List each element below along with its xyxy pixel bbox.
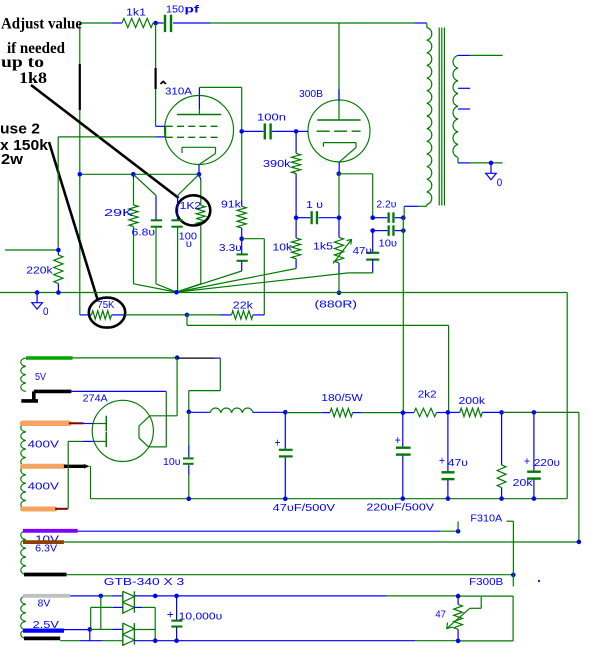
node 100n right / 390k xyxy=(294,129,299,134)
svg-text:180/5W: 180/5W xyxy=(321,392,363,404)
wire plus run xyxy=(155,595,176,597)
resistor 75K xyxy=(80,311,126,319)
wire 8V run xyxy=(70,595,122,597)
label 150pf xyxy=(166,3,200,15)
tube U2 300B envelope xyxy=(308,100,370,162)
wire rail right vertical x=567.2 xyxy=(566,293,568,499)
wire 2.5V thin xyxy=(64,629,90,631)
T2 center tap orange xyxy=(23,464,64,469)
node rail 47u3 xyxy=(446,496,451,501)
svg-text:274A: 274A xyxy=(83,393,108,405)
capacitor 220uF xyxy=(396,413,411,499)
300B grid stub xyxy=(296,130,308,132)
label 300B xyxy=(299,88,323,100)
wire B+ vertical x=403.3 xyxy=(402,218,404,413)
label 10V xyxy=(35,534,59,546)
T1 secondary bottom lead xyxy=(458,157,503,163)
svg-text:1k1: 1k1 xyxy=(126,6,146,18)
wire 2.5V drop xyxy=(89,629,91,640)
label 91k xyxy=(221,199,242,211)
wire 8V dot drop xyxy=(100,596,102,630)
node cap 10000 top xyxy=(174,594,179,599)
wire left vertical x=79.8 xyxy=(79,23,81,315)
node feedback tap xyxy=(185,313,190,318)
node choke in xyxy=(187,410,192,415)
label 5V xyxy=(35,371,46,383)
annotation circle around 1K2 xyxy=(177,195,211,225)
wire 91k to 22k vertical xyxy=(242,239,265,315)
label 6.8u xyxy=(132,227,156,239)
svg-text:Adjust value: Adjust value xyxy=(1,16,82,33)
wire 400V bottom to plate2 xyxy=(68,441,83,508)
annotation text up to xyxy=(1,54,44,71)
svg-text:2k2: 2k2 xyxy=(418,388,437,400)
ground symbol left xyxy=(32,293,43,310)
node rheostat top xyxy=(456,594,461,599)
annotation black overlay on grid wire xyxy=(155,68,157,89)
wire input y=250 xyxy=(5,249,58,251)
T2 6.3V return black xyxy=(24,573,67,577)
resistor 91k xyxy=(237,200,246,239)
resistor 22k xyxy=(187,311,264,319)
resistor 1k5 variable xyxy=(334,218,343,293)
label + 220uF xyxy=(395,435,401,447)
node secondary ground xyxy=(489,161,494,166)
annotation black overlay on left vertical xyxy=(79,64,81,110)
node rail 220u4 xyxy=(532,496,537,501)
wire 6.3V xyxy=(64,541,579,543)
label 1k5 xyxy=(313,241,333,253)
300B cathode xyxy=(323,143,356,162)
wire 5V bottom xyxy=(71,390,166,392)
1k5 arrow xyxy=(333,240,352,264)
svg-text:300B: 300B xyxy=(299,88,323,100)
svg-text:8V: 8V xyxy=(38,598,51,610)
node rail 10u xyxy=(187,497,192,502)
resistor 2k2 xyxy=(403,408,448,416)
node bridge out 1 xyxy=(153,594,158,599)
resistor 29K xyxy=(129,174,177,292)
svg-text:2.5V: 2.5V xyxy=(33,619,59,631)
wire bottom run 2 xyxy=(155,640,176,642)
inductor choke xyxy=(189,408,285,413)
label 75K xyxy=(97,299,114,311)
label 220k xyxy=(26,265,53,277)
label 22k xyxy=(233,299,254,311)
svg-text:+: + xyxy=(439,456,445,468)
T2 5V top lead thick xyxy=(26,356,73,359)
node B xyxy=(283,410,288,415)
T2 400V top lead orange xyxy=(23,421,69,427)
svg-text:1k8: 1k8 xyxy=(19,70,47,87)
label 100u xyxy=(179,230,198,249)
node 5V top xyxy=(175,355,180,360)
svg-text:47υ: 47υ xyxy=(353,245,372,257)
capacitor 10000u xyxy=(171,596,182,641)
label (880R) xyxy=(315,299,358,311)
wire vertical x=155.6 to 310A grid xyxy=(155,23,157,126)
node rail gnd xyxy=(35,290,40,295)
svg-text:(880R): (880R) xyxy=(315,299,358,311)
svg-text:0: 0 xyxy=(497,177,503,189)
svg-text:3.3υ: 3.3υ xyxy=(219,242,242,254)
wire 10V xyxy=(78,530,458,532)
T1 secondary tap 1 xyxy=(458,87,470,89)
resistor 20k xyxy=(497,412,506,498)
label 6.3V xyxy=(35,542,57,554)
resistor 390k xyxy=(292,131,301,217)
300B plate lead xyxy=(338,23,340,120)
capacitor 1u xyxy=(296,211,339,224)
wire cathode bus y=174.3 xyxy=(80,173,199,175)
wire center tap to rail xyxy=(90,466,91,498)
node bottom 2 xyxy=(174,638,179,643)
svg-text:F310A: F310A xyxy=(470,512,502,524)
transformer T2 winding 8V/2.5V xyxy=(21,596,26,639)
node bus cathode xyxy=(197,172,202,177)
annotation text Adjust value xyxy=(1,16,82,33)
node 1u left xyxy=(294,215,299,220)
svg-text:100n: 100n xyxy=(257,112,286,124)
label 8V xyxy=(38,598,51,610)
node rail 220uF xyxy=(401,496,406,501)
capacitor 2.2u xyxy=(373,212,404,222)
wire right jog vertical xyxy=(578,412,580,541)
node rail 20k xyxy=(499,496,504,501)
wire B+ takeoff black xyxy=(177,357,215,359)
svg-text:75K: 75K xyxy=(97,299,114,311)
node 100n left xyxy=(239,129,244,134)
svg-text:2w: 2w xyxy=(1,152,24,168)
annotation leader line to 1K2 xyxy=(31,85,179,198)
transformer T2 winding 5V xyxy=(21,358,26,391)
annotation leader line to 75K xyxy=(49,142,98,300)
label 390k xyxy=(263,158,291,170)
label 1k1 xyxy=(126,6,146,18)
label 100n xyxy=(257,112,286,124)
node bottom 1 xyxy=(153,638,158,643)
node input/220k xyxy=(56,248,61,253)
svg-text:220υ: 220υ xyxy=(534,457,560,469)
resistor 200k xyxy=(448,408,502,416)
svg-text:220k: 220k xyxy=(26,265,53,277)
T1 secondary top lead xyxy=(458,54,503,56)
resistor 1K2 xyxy=(176,174,205,292)
svg-text:91k: 91k xyxy=(221,199,242,211)
wire 5V top xyxy=(73,357,178,359)
svg-text:6.3V: 6.3V xyxy=(35,542,57,554)
T1 secondary tap 2 xyxy=(458,108,470,110)
capacitor 3.3u xyxy=(176,239,247,292)
300B grid row xyxy=(317,130,361,132)
svg-text:47υF/500V: 47υF/500V xyxy=(273,502,335,514)
label 10u psu xyxy=(163,456,181,468)
node C xyxy=(401,410,406,415)
svg-text:400V: 400V xyxy=(28,439,59,451)
310A cathode lead xyxy=(198,165,200,175)
label 0 right xyxy=(497,177,503,189)
T2 10V lead purple xyxy=(23,529,78,533)
capacitor 6.8u xyxy=(133,174,176,292)
capacitor 47u third xyxy=(442,412,455,498)
transformer T2 winding 10V/6.3V xyxy=(21,531,26,575)
label 47u xyxy=(353,245,372,257)
wire 5V bottom drop xyxy=(165,391,167,447)
node 300B cathode xyxy=(337,172,342,177)
resistor 180/5W xyxy=(285,408,403,416)
svg-text:310A: 310A xyxy=(165,86,192,98)
label 29K xyxy=(104,207,133,219)
node D xyxy=(446,410,451,415)
wire E to right xyxy=(502,411,579,413)
310A plate lead xyxy=(198,87,200,114)
T2 400V bottom lead orange xyxy=(23,507,56,512)
label 2k2 xyxy=(418,388,437,400)
label +10000u xyxy=(167,610,223,623)
svg-text:47: 47 xyxy=(435,609,446,621)
svg-text:up to: up to xyxy=(1,54,44,71)
resistor 220k xyxy=(54,250,63,293)
274A filament xyxy=(139,416,150,447)
node bus left xyxy=(78,172,83,177)
svg-text:10υ: 10υ xyxy=(379,237,398,249)
node junction 1k1/150pf xyxy=(153,21,158,26)
node 6.3V end xyxy=(577,540,582,545)
label 10k xyxy=(273,242,293,254)
label 310A xyxy=(165,86,192,98)
node 220u top xyxy=(532,410,537,415)
label 200k xyxy=(459,395,486,407)
label +47u third xyxy=(439,456,468,470)
310A grid stubs blue xyxy=(155,126,166,137)
resistor 1k1 xyxy=(122,18,153,27)
node primary bottom xyxy=(402,217,404,219)
node rail 47uF xyxy=(283,497,288,502)
svg-text:1K2: 1K2 xyxy=(180,200,202,212)
274A filament bottom lead xyxy=(149,446,167,448)
svg-text:pf: pf xyxy=(185,3,200,15)
label 1u xyxy=(306,199,323,211)
274A filament top lead xyxy=(150,415,177,417)
wire mid diode row xyxy=(91,606,156,608)
label GTB-340 xyxy=(104,576,185,588)
transformer T1 primary xyxy=(427,23,432,205)
wire row3 right elbow xyxy=(134,629,155,631)
svg-text:400V: 400V xyxy=(28,481,59,493)
wire 75K to 22k xyxy=(125,314,187,316)
T2 8V lead gray xyxy=(23,594,70,598)
label + 47uF1 xyxy=(275,438,281,450)
label 47 xyxy=(435,609,446,621)
node 2.2u left xyxy=(370,215,375,220)
node rheostat bottom xyxy=(456,639,461,644)
wire 400V top blue xyxy=(84,423,94,425)
svg-text:GTB-340 X 3: GTB-340 X 3 xyxy=(104,576,185,588)
300B plate bar xyxy=(317,119,360,121)
wire 5V top drop xyxy=(176,358,178,416)
wire plate node vertical x=241.7 xyxy=(241,87,243,200)
node F300B top xyxy=(511,573,516,578)
node 91k/3.3u xyxy=(239,236,244,241)
300B cathode lead xyxy=(338,162,340,174)
label 180/5W xyxy=(321,392,363,404)
wire cathode branch xyxy=(339,174,373,218)
annotation circle around 75K xyxy=(89,298,125,328)
svg-text:150: 150 xyxy=(166,3,184,15)
annotation text use 2 xyxy=(0,122,40,138)
capacitor 150pf xyxy=(156,15,173,32)
svg-text:22k: 22k xyxy=(233,299,254,311)
wire plus run 2 xyxy=(177,595,459,597)
svg-text:+: + xyxy=(524,456,530,468)
capacitor 10u psu xyxy=(183,412,194,499)
wire top rail y=23 xyxy=(80,22,427,24)
label 0 left xyxy=(43,306,49,318)
310A plate bar xyxy=(177,114,221,116)
svg-text:47υ: 47υ xyxy=(448,457,468,469)
transformer T2 winding 400V xyxy=(21,423,26,509)
node bus 29K xyxy=(131,172,136,177)
wire bottom run xyxy=(60,640,155,642)
label 274A xyxy=(83,393,108,405)
wire B+ takeoff blue xyxy=(215,357,220,359)
svg-text:+: + xyxy=(275,438,281,450)
annotation text 1k8 xyxy=(19,70,47,87)
capacitor 100n xyxy=(242,123,296,139)
310A cathode xyxy=(182,147,216,164)
T1 core xyxy=(439,28,444,206)
capacitor 47uF first xyxy=(279,412,293,499)
svg-text:1k5: 1k5 xyxy=(313,241,333,253)
wire row3 xyxy=(90,628,123,630)
F310A stub xyxy=(457,521,459,531)
label F300B xyxy=(469,576,503,588)
svg-text:200k: 200k xyxy=(459,395,486,407)
annotation caret near 310A xyxy=(161,82,167,85)
label 10u xyxy=(379,237,398,249)
label 47uF/500V xyxy=(273,502,335,514)
T2 6.3V lead brown xyxy=(23,540,64,544)
node E xyxy=(499,410,504,415)
svg-text:220υF/500V: 220υF/500V xyxy=(366,502,434,514)
274A plate 2 xyxy=(105,432,107,447)
svg-text:υ: υ xyxy=(186,238,192,250)
svg-text:29K: 29K xyxy=(104,207,133,219)
wire 8V after D1 xyxy=(134,595,155,597)
node 10V end xyxy=(456,529,461,534)
label 400V b xyxy=(28,481,59,493)
node 2.2u right xyxy=(401,215,406,220)
svg-text:+: + xyxy=(395,435,401,447)
node 8V tap xyxy=(99,594,104,599)
274A plate2 lead xyxy=(94,440,106,442)
274A plate1 lead xyxy=(93,423,106,425)
310A grid row 1 xyxy=(166,125,221,127)
wire 574 run xyxy=(67,574,514,576)
rheostat 47 arrow xyxy=(447,597,481,629)
capacitor 47u cathode xyxy=(176,231,379,293)
wire vertical x=58.2 xyxy=(57,137,59,250)
wire blue stub left of R 1k1 xyxy=(112,22,122,24)
stray dot xyxy=(538,580,540,582)
svg-text:1 υ: 1 υ xyxy=(306,199,323,211)
label 20k xyxy=(513,477,534,489)
310A grid tie vertical xyxy=(165,126,167,137)
T1 secondary xyxy=(453,55,458,157)
fuse F310A wire xyxy=(507,521,514,575)
tube U1 310A envelope xyxy=(165,96,234,165)
wire B+ takeoff path xyxy=(189,358,221,412)
wire mid vertical left xyxy=(90,607,92,629)
label 400V a xyxy=(28,439,59,451)
svg-text:390k: 390k xyxy=(263,158,291,170)
capacitor 100u xyxy=(171,174,199,292)
node 10u left xyxy=(370,228,375,233)
annotation text if needed xyxy=(7,40,65,57)
T1 primary bottom lead xyxy=(404,205,427,218)
wire psu ground rail xyxy=(91,498,568,500)
wire mid vertical right xyxy=(154,607,156,640)
label 2.5V xyxy=(33,619,59,631)
label 220uF/500V xyxy=(366,502,434,514)
wire 400V top darkred xyxy=(69,422,84,424)
svg-text:10υ: 10υ xyxy=(163,456,181,468)
svg-text:F300B: F300B xyxy=(469,576,503,588)
svg-text:0: 0 xyxy=(43,306,49,318)
wire bottom run 3 xyxy=(177,640,459,642)
wire plate to 100n corner xyxy=(199,86,241,88)
node 2.5V tap xyxy=(88,627,93,632)
T2 return lead black xyxy=(24,637,60,641)
capacitor 220u fourth xyxy=(527,412,541,498)
wire grid2 horizontal y=136.9 xyxy=(58,136,155,138)
T2 center tap black xyxy=(64,464,90,469)
svg-text:2.2υ: 2.2υ xyxy=(376,198,396,210)
node 1k5 rail xyxy=(337,291,342,296)
wire F300B loop xyxy=(458,596,513,641)
resistor 10k xyxy=(176,238,300,292)
label 3.3u xyxy=(219,242,242,254)
diode pair D1 GTB-340 xyxy=(123,591,135,614)
wire 400V bottom darkred xyxy=(55,508,68,510)
svg-text:10,000υ: 10,000υ xyxy=(179,611,223,623)
wire 10k bottom diag xyxy=(295,218,297,238)
annotation text 2w xyxy=(1,152,24,168)
T2 2.5V lead blue xyxy=(23,628,64,632)
annotation text x 150k xyxy=(0,138,49,154)
rheostat 47 xyxy=(454,596,463,641)
310A grid row 2 xyxy=(166,136,221,138)
label F310A xyxy=(470,512,502,524)
wire plate2 blue xyxy=(83,440,94,442)
fuse F300B wire xyxy=(512,575,514,587)
wire feedback run xyxy=(187,315,449,413)
label 2.2u xyxy=(376,198,396,210)
ground symbol right xyxy=(486,163,497,180)
T2 5V bottom lead thick xyxy=(21,391,71,401)
svg-text:+: + xyxy=(167,610,174,622)
label 1K2 xyxy=(180,200,202,212)
wire ground rail y=292.5 xyxy=(0,292,567,294)
tube U3 274A envelope xyxy=(92,400,153,461)
svg-text:use 2: use 2 xyxy=(0,122,40,138)
274A plate 1 xyxy=(105,416,107,432)
diode pair D2 GTB-340 xyxy=(123,623,135,646)
node star xyxy=(174,290,179,295)
svg-text:6.8υ: 6.8υ xyxy=(132,227,156,239)
node 1u right xyxy=(337,215,342,220)
node 10u right xyxy=(401,228,406,233)
